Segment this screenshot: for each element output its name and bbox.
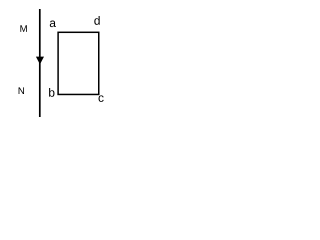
rectangular loop abcd <box>58 32 99 94</box>
current direction arrowhead <box>36 57 44 65</box>
wire MN <box>39 9 41 117</box>
label M <box>20 25 26 32</box>
label b <box>49 88 54 97</box>
label N <box>19 87 24 94</box>
label c <box>99 95 104 102</box>
label a <box>50 21 56 28</box>
label d <box>94 16 99 25</box>
